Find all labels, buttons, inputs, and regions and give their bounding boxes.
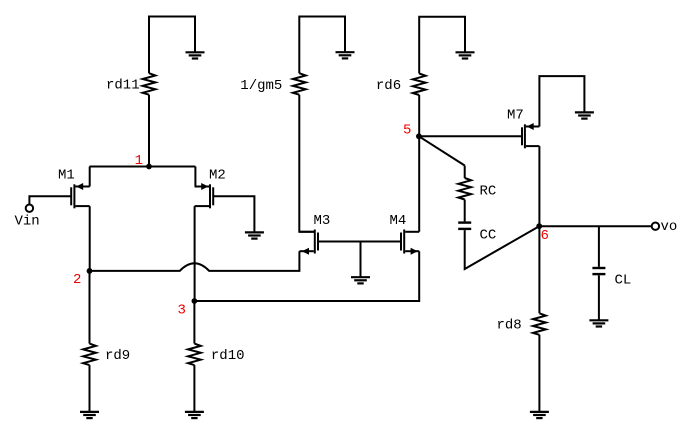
ground (below rd8) (530, 412, 549, 418)
resistor rd8 (533, 313, 546, 335)
wire node 5 down to M4 drain (418, 136, 420, 232)
svg-text:vo: vo (661, 219, 678, 235)
resistor rd6 (413, 74, 426, 96)
node 1 junction dot (146, 164, 152, 170)
resistor 1/gm5 (293, 73, 306, 95)
wire M3/M4 gates rail (318, 241, 401, 243)
node 2 junction dot (87, 268, 93, 274)
svg-text:CC: CC (480, 228, 497, 244)
svg-text:CL: CL (615, 272, 632, 288)
wire rd8 to ground (538, 335, 540, 412)
wire M7 source down to node 6 (538, 146, 540, 226)
transistor M1 (71, 183, 90, 208)
wire M1 drain up to node 1 (89, 167, 91, 187)
ground (right of M7) (575, 112, 594, 118)
svg-text:rd11: rd11 (106, 78, 140, 94)
ground (right of M2) (245, 232, 264, 238)
wire M2 source down to node 3 (194, 206, 196, 301)
wire Vin to M1 gate (29, 196, 71, 204)
wire rd6 down to node 5 (418, 95, 420, 136)
svg-text:2: 2 (73, 272, 81, 288)
wire M7 drain up to ground (539, 76, 584, 126)
ground (top right, right of rd6) (456, 52, 475, 58)
wire rd11 to node 1 (148, 95, 150, 167)
wire node 6 branch down to CL (598, 226, 600, 267)
wire node 2 down to rd9 (89, 271, 91, 344)
ground (top middle, right of 1/gm5) (336, 52, 355, 58)
transistor M7 (522, 123, 539, 148)
wire rd9 to ground (89, 365, 91, 412)
svg-text:M4: M4 (390, 213, 407, 229)
wire M1 source down to node 2 (89, 206, 91, 271)
ground (below rd9) (80, 412, 99, 418)
wire CL to ground (598, 275, 600, 320)
resistor RC (458, 178, 471, 200)
ground (below M3/M4 gates) (351, 277, 370, 283)
node 6 junction dot (536, 223, 542, 229)
wire node 3 down to rd10 (193, 301, 195, 344)
svg-text:3: 3 (178, 302, 186, 318)
resistor rd10 (188, 344, 201, 366)
wire diagonal end to RC top (464, 166, 466, 179)
svg-text:rd10: rd10 (211, 348, 245, 364)
wire M2 gate to ground (213, 196, 254, 232)
wire node 3 rail to M4 source (194, 251, 419, 301)
ground (top left, right of rd11) (186, 52, 205, 58)
wire gates to ground (360, 242, 362, 278)
svg-text:rd9: rd9 (105, 348, 130, 364)
wire top rail from rd6 to ground (419, 17, 465, 74)
resistor rd11 (143, 73, 156, 95)
svg-text:M1: M1 (58, 168, 75, 184)
svg-text:M2: M2 (209, 168, 226, 184)
svg-text:5: 5 (403, 123, 411, 139)
svg-text:6: 6 (541, 228, 549, 244)
svg-text:M7: M7 (507, 108, 524, 124)
input terminal Vin (26, 205, 33, 212)
svg-text:rd6: rd6 (376, 78, 401, 94)
capacitor CL (592, 268, 605, 274)
ground (below CL) (589, 320, 608, 326)
node 3 junction dot (192, 298, 198, 304)
svg-text:rd8: rd8 (497, 317, 522, 333)
wire node 6 down to rd8 (538, 226, 540, 313)
resistor rd9 (83, 344, 96, 366)
svg-text:RC: RC (480, 183, 497, 199)
wire 1/gm5 down to M3 drain (299, 95, 314, 232)
wire node 5 to M7 gate (419, 135, 522, 137)
wire node 6 rail to vo (539, 225, 652, 227)
svg-text:1/gm5: 1/gm5 (240, 78, 282, 94)
transistor M2 (195, 183, 214, 208)
output terminal vo (652, 223, 659, 230)
wire node 5 diagonal to RC (419, 136, 465, 165)
wire top rail from 1/gm5 to ground (299, 17, 345, 74)
node 5 junction dot (416, 133, 422, 139)
wire M2 drain from node 1 rail (194, 167, 196, 187)
wire node 1 horizontal rail (90, 166, 196, 168)
svg-text:M3: M3 (314, 213, 331, 229)
transistor M3 (299, 230, 318, 255)
wire node 2 rail with hop over M2 source line (90, 251, 300, 271)
wire top rail from rd11 to ground (149, 17, 195, 74)
wire RC to CC (464, 200, 466, 222)
svg-text:Vin: Vin (15, 213, 40, 229)
capacitor CC (458, 223, 471, 229)
wire CC bottom diagonal to node 6 (465, 226, 540, 269)
wire rd10 to ground (193, 365, 195, 412)
ground (below rd10) (185, 412, 204, 418)
transistor M4 (401, 230, 419, 255)
